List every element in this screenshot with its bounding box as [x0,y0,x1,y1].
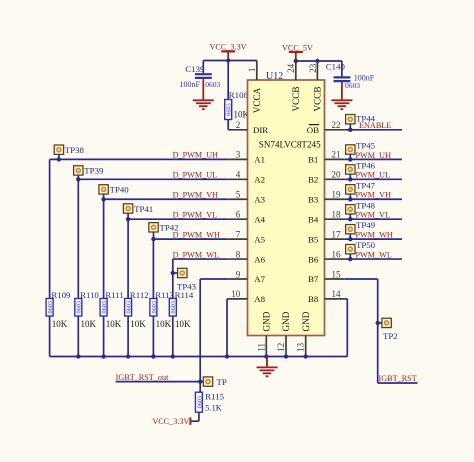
wire D_PWM_WH column down to resistor [152,239,154,356]
wire net PWM_UH [345,158,402,160]
svg-text:5.1K: 5.1K [205,403,222,412]
junction GND pin at rail [264,354,268,358]
test point TP45 [346,145,355,160]
svg-text:GND: GND [281,311,291,331]
svg-text:0603: 0603 [151,301,158,313]
resistor R114 [169,299,177,317]
pin 15 (B7) [308,269,345,284]
svg-text:D_PWM_UH: D_PWM_UH [173,151,219,160]
svg-text:3: 3 [236,150,241,160]
resistor R112 [125,299,133,317]
svg-text:10K: 10K [130,319,146,329]
svg-text:17: 17 [332,229,342,239]
svg-text:VCCB: VCCB [313,86,323,111]
svg-text:TP46: TP46 [356,160,376,170]
junction TP47 [348,197,352,201]
svg-text:A7: A7 [254,274,265,284]
svg-text:15: 15 [332,269,342,279]
junction TP45 [348,157,352,161]
wire net IGBT_RST (from pin 15) [345,279,418,383]
svg-text:0603: 0603 [170,301,177,313]
test point TP41 [123,204,132,219]
junction IGBT_RST_out node [198,379,202,383]
test point TP48 [346,205,355,220]
wire D_PWM_UH column down to resistor [49,159,51,356]
svg-text:R110: R110 [80,290,99,300]
svg-text:22: 22 [332,120,341,130]
junction TP40 [101,197,105,201]
pin 1 (VCCA) [247,61,262,114]
junction R111 at bottom rail [101,354,105,358]
junction VCC_5V rail at pin 23 [315,59,319,63]
svg-text:TP40: TP40 [110,185,130,195]
svg-text:GND: GND [301,311,311,331]
pin 19 (B3) [308,190,345,205]
svg-text:PWM_VL: PWM_VL [356,211,391,220]
svg-text:4: 4 [236,170,241,180]
svg-text:A8: A8 [254,294,265,304]
junction R112 at bottom rail [126,354,130,358]
power port VCC_3.3V (bottom) [152,417,199,426]
pin 23 (VCCB) [308,61,323,112]
svg-text:0603: 0603 [226,103,233,115]
svg-text:R108: R108 [229,90,249,100]
junction on VCC_3.3V rail at R108 column [226,58,230,62]
svg-text:A2: A2 [254,175,265,185]
junction R110 at bottom rail [76,354,80,358]
svg-text:R112: R112 [130,290,149,300]
wire pin 9 (A7) to IGBT_RST_out node [200,279,227,382]
junction GND pin at rail [284,354,288,358]
wire net IGBT_RST_out [116,381,201,383]
svg-text:A1: A1 [254,155,265,165]
svg-text:B2: B2 [308,175,318,185]
svg-text:0603: 0603 [345,81,360,90]
svg-text:10K: 10K [175,319,191,329]
ground under C140 [331,81,352,109]
svg-text:R114: R114 [175,290,194,300]
wire D_PWM_VL column down to resistor [127,219,129,356]
junction VCC_5V rail at pin 24 [294,59,298,63]
svg-text:TP47: TP47 [356,180,376,190]
svg-text:B1: B1 [308,155,318,165]
wire net PWM_VL [345,218,402,220]
pin 22 (OB, output enable) [307,120,345,135]
svg-text:11: 11 [256,343,266,352]
svg-text:10K: 10K [81,319,97,329]
svg-text:18: 18 [332,209,342,219]
svg-text:1: 1 [247,68,257,73]
svg-text:B3: B3 [308,194,319,204]
svg-text:PWM_WH: PWM_WH [356,231,393,240]
pin 2 (DIR) [228,120,268,135]
svg-text:R115: R115 [205,391,224,401]
wire net PWM_WL [345,258,402,260]
svg-text:14: 14 [332,289,342,299]
svg-text:B8: B8 [308,294,319,304]
svg-text:6: 6 [236,209,241,219]
svg-text:TP41: TP41 [134,204,153,214]
test point TP38 [54,145,63,159]
svg-text:0603: 0603 [47,301,54,313]
svg-text:TP45: TP45 [356,141,376,151]
wire net D_PWM_UL row [78,178,227,180]
svg-text:B4: B4 [308,214,319,224]
svg-text:D_PWM_UL: D_PWM_UL [173,171,218,180]
junction TP41 [126,217,130,221]
wire D_PWM_WL column down to resistor [172,259,174,356]
pin 16 (B6) [308,249,345,264]
ground under C139 [193,78,214,109]
svg-text:A4: A4 [254,214,265,224]
svg-text:0603: 0603 [101,301,108,313]
pin 10 (A8) [227,289,265,304]
svg-text:9: 9 [236,269,241,279]
junction TP38 on D_PWM_UH [57,157,61,161]
svg-text:TP44: TP44 [356,114,376,124]
capacitor C139 [195,61,212,78]
junction TP46 [348,177,352,181]
junction TP50 [348,257,352,261]
svg-text:2: 2 [236,120,241,130]
svg-text:DIR: DIR [253,125,268,135]
test point TP39 [74,166,83,180]
svg-text:B6: B6 [308,254,319,264]
svg-text:TP50: TP50 [356,240,376,250]
svg-text:PWM_VH: PWM_VH [356,191,392,200]
svg-text:D_PWM_VL: D_PWM_VL [173,210,218,219]
svg-text:TP2: TP2 [383,331,398,341]
svg-text:10: 10 [231,289,241,299]
wire D_PWM_UL column down to resistor [77,179,79,356]
svg-text:IGBT_RST: IGBT_RST [379,374,417,383]
svg-text:5: 5 [236,190,241,200]
svg-text:A5: A5 [254,234,265,244]
pin 3 (A1) [227,150,265,165]
svg-text:13: 13 [296,342,306,352]
pin 24 (VCCB) [286,61,301,112]
pin 11 (GND) [256,311,271,356]
svg-text:TP: TP [217,377,227,387]
svg-text:A6: A6 [254,254,265,264]
pin 7 (A5) [227,229,265,244]
svg-text:10K: 10K [52,319,68,329]
pin 14 (B8) [308,289,345,304]
svg-text:12: 12 [276,343,286,352]
svg-text:0603: 0603 [196,396,203,408]
svg-text:C140: C140 [326,62,346,72]
svg-text:R109: R109 [51,290,71,300]
test point TP42 [149,223,158,240]
svg-text:PWM_WL: PWM_WL [356,250,392,259]
resistor R110 [75,299,83,317]
svg-text:GND: GND [262,311,272,331]
svg-text:PWM_UH: PWM_UH [356,151,392,160]
svg-text:VCC_3.3V: VCC_3.3V [152,417,189,426]
test point TP43 [173,268,187,277]
svg-text:TP39: TP39 [84,166,104,176]
svg-text:B5: B5 [308,234,319,244]
svg-text:24: 24 [286,63,296,73]
junction GND pin at rail [304,354,308,358]
svg-text:R111: R111 [105,290,123,300]
pin 21 (B1) [308,150,345,165]
wire net PWM_UL [345,178,402,180]
svg-text:10K: 10K [106,319,122,329]
pin 18 (B4) [308,209,345,224]
capacitor C140 [334,61,351,81]
junction R113 at bottom rail [151,354,155,358]
resistor R108 [225,61,233,130]
svg-text:TP38: TP38 [65,145,85,155]
svg-text:A3: A3 [254,194,265,204]
svg-text:10K: 10K [156,319,172,329]
resistor R113 [150,299,158,317]
wire D_PWM_VH column down to resistor [103,199,105,356]
svg-text:C139: C139 [185,64,205,74]
svg-text:PWM_UL: PWM_UL [356,171,391,180]
pin 6 (A4) [227,209,265,224]
IC U12 body (SN74LVC8T245 transceiver) [248,80,325,336]
junction TP43 on R114 column [171,271,175,275]
wire VCC_5V rail [296,60,342,62]
svg-text:0603: 0603 [76,301,83,313]
junction TP2 [376,321,380,325]
test point TP46 [346,165,355,180]
svg-text:SN74LVC8T245: SN74LVC8T245 [259,139,321,149]
pin 5 (A3) [227,190,265,205]
power port VCC_5V (top) [282,44,313,61]
test point TP44 [346,115,355,130]
svg-text:B7: B7 [308,274,319,284]
svg-text:TP48: TP48 [356,200,376,210]
test point TP [200,377,213,386]
svg-text:19: 19 [332,190,342,200]
power port VCC_3.3V (top) [210,43,247,61]
svg-text:100nF: 100nF [180,80,201,89]
svg-text:16: 16 [332,249,342,259]
junction R114 at bottom rail [171,354,175,358]
svg-text:7: 7 [236,229,241,239]
wire net D_PWM_VH row [104,198,228,200]
junction TP48 [348,217,352,221]
wire net ENABLE [345,129,402,131]
pin 13 (GND) [296,311,311,356]
wire net D_PWM_UH row [50,158,228,160]
svg-text:IGBT_RST_out: IGBT_RST_out [116,373,169,382]
junction TP44 [348,128,352,132]
wire VCC_3.3V rail [203,60,256,62]
svg-text:0603: 0603 [126,301,133,313]
pin 4 (A2) [227,170,265,185]
svg-text:D_PWM_WH: D_PWM_WH [173,230,220,239]
wire net D_PWM_WH row [153,238,227,240]
junction pin10 column at rail [225,354,229,358]
svg-text:23: 23 [308,63,318,73]
wire net D_PWM_VL row [128,218,227,220]
wire net PWM_VH [345,198,402,200]
pin 8 (A6) [227,249,265,264]
test point TP2 [378,318,392,327]
junction TP42 [151,237,155,241]
svg-text:D_PWM_WL: D_PWM_WL [173,250,219,259]
test point TP49 [346,225,355,240]
svg-text:20: 20 [332,170,342,180]
test point TP40 [99,185,108,200]
svg-text:8: 8 [236,249,241,259]
svg-text:TP49: TP49 [356,220,376,230]
svg-text:VCCA: VCCA [252,87,262,113]
wire pin 10 (A8) down to rail [226,299,228,357]
junction TP49 [348,237,352,241]
ground under U12 [257,357,278,377]
svg-text:VCCB: VCCB [291,86,301,111]
svg-text:D_PWM_VH: D_PWM_VH [173,191,219,200]
svg-text:U12: U12 [266,71,283,82]
svg-text:TP42: TP42 [160,223,179,233]
pin 20 (B2) [308,170,345,185]
svg-text:0603: 0603 [205,80,220,89]
wire net D_PWM_WL row [173,258,227,260]
wire pin 14 (B8) down to rail [345,299,348,357]
wire bottom pulldown rail [50,356,348,358]
resistor R111 [100,299,108,317]
resistor R109 [46,299,54,317]
pin 12 (GND) [276,311,291,356]
svg-text:OB: OB [307,125,319,135]
resistor R115 [195,382,203,422]
pin 17 (B5) [308,229,345,244]
junction TP39 [76,177,80,181]
test point TP47 [346,185,355,200]
test point TP50 [346,244,355,259]
svg-text:21: 21 [332,150,341,160]
wire net PWM_WH [345,238,402,240]
pin 9 (A7) [227,269,265,284]
